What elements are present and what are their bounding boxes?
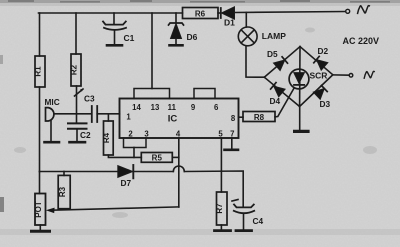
svg-text:D7: D7 [121, 178, 132, 188]
svg-text:R3: R3 [58, 186, 67, 197]
wire left vertical rail upper [39, 13, 41, 56]
svg-text:8: 8 [231, 114, 236, 123]
wire mic to C3 [55, 113, 91, 115]
diode D5 [267, 49, 288, 71]
svg-text:R1: R1 [34, 66, 43, 77]
svg-text:IC: IC [168, 114, 178, 125]
svg-text:6: 6 [214, 103, 219, 112]
svg-text:C3: C3 [84, 94, 95, 104]
svg-text:4: 4 [176, 130, 181, 139]
wire R4 bottom to R5 [108, 155, 141, 157]
svg-text:R2: R2 [70, 64, 79, 75]
svg-text:MIC: MIC [45, 97, 60, 107]
capacitor C1 [103, 13, 135, 45]
resistor R8 [239, 112, 276, 122]
bottom scan streak [0, 229, 400, 235]
svg-text:D5: D5 [267, 49, 278, 59]
svg-text:D1: D1 [224, 18, 235, 28]
resistor R6 [183, 8, 219, 19]
svg-text:14: 14 [132, 103, 141, 112]
svg-text:C4: C4 [253, 216, 264, 226]
left edge scan mark [0, 197, 4, 212]
svg-text:LAMP: LAMP [262, 31, 286, 41]
svg-text:SCR: SCR [310, 71, 328, 81]
bridge edge bottom-left [264, 77, 299, 106]
svg-text:R8: R8 [254, 113, 265, 122]
wire R2 top lead [75, 13, 77, 54]
svg-text:C2: C2 [80, 130, 91, 140]
svg-text:2: 2 [128, 130, 133, 139]
svg-text:C1: C1 [124, 33, 135, 43]
resistor R4 [102, 114, 113, 155]
diode D4 [270, 83, 286, 106]
lamp LA [238, 13, 286, 46]
wire tab23 to R5 junction [133, 148, 135, 158]
diode D3 [313, 86, 330, 110]
wire bridge bottom to ground [299, 107, 301, 130]
wire left vertical rail lower [39, 87, 41, 172]
wire D1 to live terminal [235, 12, 346, 13]
wire hop to C4 corner [184, 171, 243, 207]
wire rail to IC tab [151, 13, 153, 89]
resistor R2 [70, 54, 81, 86]
top scan edge band [0, 0, 400, 3]
resistor R7 [215, 192, 231, 231]
svg-text:R7: R7 [215, 203, 224, 214]
wire hop over pin4 line [173, 166, 184, 171]
thyristor SCR [289, 47, 327, 107]
wire feedback rail with D7 [40, 171, 118, 173]
wiper arrow [46, 208, 55, 214]
svg-text:POT: POT [34, 201, 43, 218]
resistor R3 [58, 172, 70, 209]
svg-text:3: 3 [144, 130, 149, 139]
adjust arrow at R2 [75, 89, 84, 96]
svg-text:D2: D2 [318, 46, 329, 56]
wire wiper rail [53, 207, 179, 210]
ground bridge [295, 130, 308, 133]
ground pin 7 [225, 138, 239, 150]
wire pin5 to R7 [220, 138, 222, 192]
svg-text:13: 13 [151, 103, 160, 112]
svg-text:AC 220V: AC 220V [343, 36, 380, 46]
capacitor C4 [232, 200, 263, 231]
top edge dark dashes [8, 0, 390, 3]
wire top supply rail [39, 12, 183, 14]
IC tab pins 9-6 [194, 89, 215, 99]
svg-text:R4: R4 [102, 132, 111, 143]
wire D7 to hop [133, 171, 173, 173]
svg-text:D6: D6 [187, 32, 198, 42]
resistor R5 [141, 153, 172, 163]
AC symbol bottom [364, 71, 374, 78]
op IC box [120, 99, 239, 139]
svg-text:5: 5 [218, 130, 223, 139]
faint toner blotches [14, 28, 377, 219]
bridge edge top-left [264, 47, 300, 78]
terminal live [346, 9, 350, 13]
microphone MIC [45, 97, 60, 142]
svg-text:D4: D4 [270, 96, 281, 106]
diode D1 [218, 7, 235, 28]
AC symbol top [358, 6, 370, 14]
svg-text:9: 9 [191, 103, 196, 112]
capacitor C2 [68, 114, 91, 142]
diode D7 [118, 165, 134, 188]
wire R5 to pin4 line [172, 156, 179, 158]
wire pin4 vertical [178, 138, 180, 207]
IC tab pins 2-3 [124, 138, 147, 148]
diode D2 [314, 46, 329, 70]
wire gate of SCR [275, 88, 294, 117]
IC tab pins 14-13 [134, 89, 170, 99]
svg-text:R5: R5 [152, 154, 163, 163]
wire R2 bottom lead [76, 86, 78, 114]
terminal neutral [349, 74, 353, 78]
svg-text:11: 11 [168, 103, 177, 112]
wire bridge right vertex to neutral terminal [333, 74, 349, 76]
svg-text:7: 7 [230, 130, 234, 139]
svg-text:R6: R6 [195, 10, 206, 19]
zener diode D6 [169, 13, 198, 45]
svg-text:D3: D3 [320, 99, 331, 109]
wire lamp to bridge left vertex [246, 46, 264, 77]
bridge edge bottom-right [300, 75, 333, 107]
resistor R1 [34, 56, 45, 87]
capacitor C3 [84, 94, 97, 123]
bridge edge top-right [300, 47, 333, 75]
potentiometer POT [32, 172, 50, 232]
wire C3 to IC pin 1 [97, 113, 119, 115]
svg-text:1: 1 [126, 113, 131, 122]
